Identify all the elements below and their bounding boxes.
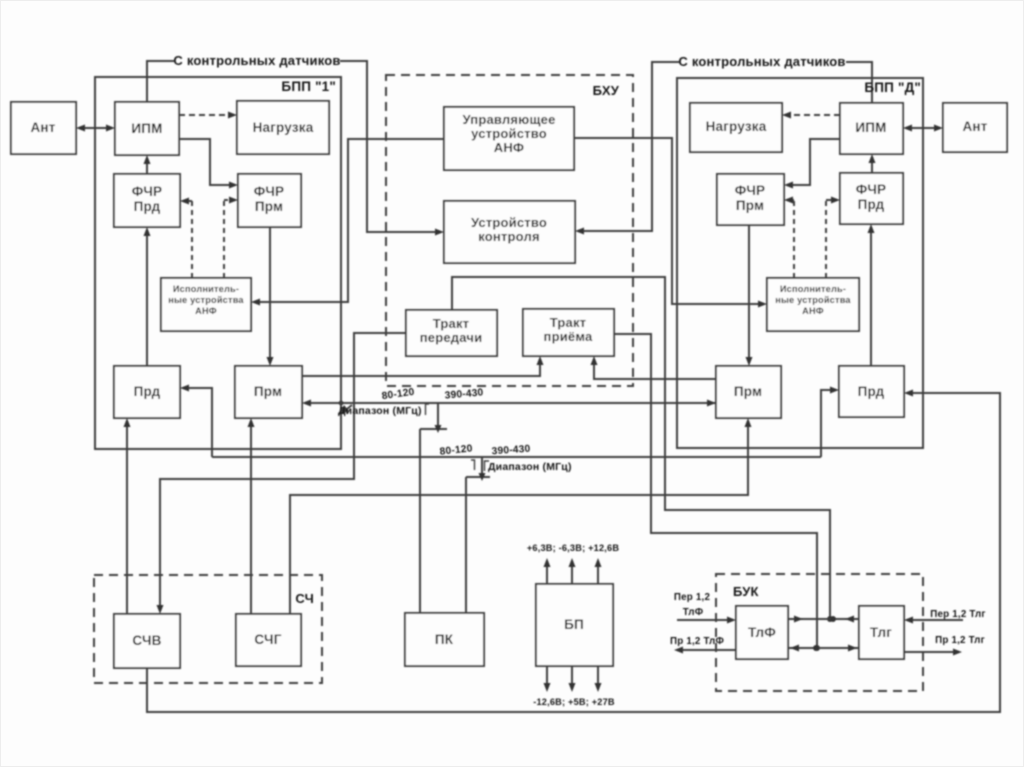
enclosure СЧ dashed — [94, 575, 322, 683]
svg-text:Прд: Прд — [858, 384, 885, 399]
box СЧГ — [236, 614, 301, 666]
svg-text:80-120: 80-120 — [381, 387, 415, 402]
svg-text:Прм: Прм — [254, 384, 282, 399]
svg-text:Прд: Прд — [134, 384, 161, 399]
svg-text:80-120: 80-120 — [439, 443, 473, 457]
net "С контрольных датчиков" left: line to ИПМ L top — [147, 61, 174, 102]
box Нагрузка left — [237, 101, 329, 154]
box Тракт приёма — [523, 309, 614, 356]
box Нагрузка right — [690, 103, 782, 152]
wire Тракт передачи - БУК junction — [452, 277, 833, 622]
wire ФЧР Прд L - ИПМ L — [144, 155, 151, 174]
svg-text:устройство: устройство — [471, 126, 547, 141]
svg-text:Диапазон (МГц): Диапазон (МГц) — [338, 405, 422, 417]
box Исполнительные устройства АНФ right — [767, 278, 859, 331]
svg-text:ТлФ: ТлФ — [683, 607, 704, 618]
svg-text:АНФ: АНФ — [195, 306, 217, 316]
wire Пр 1,2 ТлФ output — [674, 647, 736, 654]
svg-text:АНФ: АНФ — [494, 140, 524, 155]
wire Управляющее устройство АНФ - Исп.устройства АНФ L — [251, 139, 444, 306]
wire СЧГ - Прм L — [248, 418, 255, 614]
svg-text:ТлФ: ТлФ — [748, 625, 776, 640]
box Тлг — [859, 606, 904, 659]
svg-text:ные устройства: ные устройства — [168, 295, 244, 305]
svg-text:Пр 1,2 ТлФ: Пр 1,2 ТлФ — [670, 636, 724, 647]
net "С контрольных датчиков" left: line down to Устройство контроля — [340, 61, 444, 236]
svg-text:Нагрузка: Нагрузка — [253, 120, 314, 135]
box СЧВ — [114, 614, 180, 668]
svg-text:Прд: Прд — [858, 197, 885, 212]
wire ФЧР Прм L - Прм L — [267, 227, 274, 366]
box ФЧР Прд right — [840, 173, 903, 224]
svg-text:Пр 1,2 Тлг: Пр 1,2 Тлг — [935, 635, 985, 646]
svg-text:Ант: Ант — [30, 120, 55, 135]
svg-text:ПК: ПК — [435, 632, 454, 647]
svg-text:Тракт: Тракт — [433, 316, 470, 331]
box Прд left — [114, 366, 180, 418]
box Ант left — [11, 102, 76, 154]
box Ант right — [943, 103, 1007, 152]
wire Ант L - ИПМ L bidirectional — [76, 125, 115, 132]
svg-text:передачи: передачи — [420, 330, 483, 345]
bracket tick upper Диапазон — [426, 404, 430, 415]
box Прм right — [716, 366, 781, 418]
svg-text:Тлг: Тлг — [870, 625, 892, 640]
svg-text:СЧ: СЧ — [295, 591, 314, 606]
svg-text:Исполнитель-: Исполнитель- — [780, 284, 846, 294]
wire ИПМ L - Нагрузка L dashed — [179, 112, 237, 119]
box ФЧР Прм left — [238, 174, 301, 227]
net "С контрольных датчиков" right: line to ИПМ R top — [846, 62, 872, 103]
svg-text:390-430: 390-430 — [491, 444, 531, 458]
svg-text:приёма: приёма — [544, 329, 593, 344]
svg-text:ФЧР: ФЧР — [132, 184, 162, 199]
svg-text:БПП "Д": БПП "Д" — [864, 80, 921, 95]
svg-text:Устройство: Устройство — [471, 215, 547, 230]
svg-text:Исполнитель-: Исполнитель- — [173, 284, 239, 294]
wire Прд R - ФЧР Прд R — [868, 224, 875, 366]
wire СЧВ - Прд R long bottom route — [147, 390, 1000, 713]
svg-text:БУК: БУК — [733, 584, 759, 599]
svg-text:Тракт: Тракт — [550, 315, 587, 330]
svg-text:контроля: контроля — [478, 229, 540, 244]
svg-text:С контрольных датчиков: С контрольных датчиков — [678, 54, 845, 69]
svg-text:Нагрузка: Нагрузка — [706, 119, 767, 134]
wire СЧВ - Прд L — [124, 418, 131, 614]
svg-text:Прм: Прм — [255, 199, 283, 214]
wire Пер 1,2 Тлг input — [904, 617, 963, 624]
box Исполнительные устройства АНФ left — [161, 278, 251, 331]
svg-text:ФЧР: ФЧР — [254, 184, 284, 199]
wire Исп.устройства АНФ R - ФЧР Прм R dashed — [784, 197, 794, 279]
svg-text:СЧВ: СЧВ — [132, 633, 161, 648]
БП output arrows up — [544, 558, 602, 584]
box ТлФ — [736, 606, 788, 659]
net ПК - Прм bus (80-120/390-430) — [302, 400, 716, 614]
svg-text:ные устройства: ные устройства — [775, 295, 851, 305]
svg-text:+6,3В; -6,3В; +12,6В: +6,3В; -6,3В; +12,6В — [527, 543, 620, 553]
wire ИПМ R - Ант R bidirectional — [903, 125, 943, 132]
wire Прм L - Тракт приёма — [302, 356, 544, 376]
svg-text:390-430: 390-430 — [444, 387, 484, 401]
wire Исп.устройства АНФ L - ФЧР Прм L dashed — [224, 197, 238, 279]
box ПК — [405, 613, 484, 666]
svg-text:БПП "1": БПП "1" — [281, 79, 336, 94]
box БП — [536, 584, 613, 666]
box Управляющее устройство АНФ — [444, 107, 574, 170]
svg-text:Ант: Ант — [962, 119, 987, 134]
wire Тракт передачи - СЧВ — [157, 333, 407, 614]
svg-text:Диапазон (МГц): Диапазон (МГц) — [488, 461, 572, 473]
wire УАНФ - Исп.устройства АНФ R — [574, 138, 767, 308]
box Устройство контроля — [444, 201, 575, 263]
bracket tick lower 80-120 — [471, 460, 475, 470]
svg-text:Прм: Прм — [736, 198, 764, 213]
wire ИПМ R - ФЧР Прм R — [784, 139, 840, 189]
wire Исп.устройства АНФ R - ФЧР Прд R dashed — [826, 197, 840, 279]
wire ТлФ - Тлг upper with junction — [788, 616, 859, 623]
box ИПМ left — [115, 102, 179, 155]
wire Прм R - Тракт приёма — [591, 356, 717, 379]
box Прд right — [839, 366, 904, 417]
svg-text:Управляющее: Управляющее — [462, 112, 555, 127]
svg-text:-12,6В; +5В; +27В: -12,6В; +5В; +27В — [533, 697, 615, 707]
wire ИПМ L - ФЧР Прм L — [179, 139, 238, 189]
svg-text:ФЧР: ФЧР — [856, 182, 886, 197]
wire ТлФ - Тлг lower with junction — [788, 645, 859, 652]
svg-text:Прд: Прд — [134, 199, 161, 214]
svg-text:БХУ: БХУ — [593, 83, 620, 98]
svg-text:ИПМ: ИПМ — [855, 120, 886, 135]
net "С контрольных датчиков" right: line to контроля — [575, 62, 679, 235]
box ФЧР Прм right — [717, 174, 784, 225]
БП output arrows down — [544, 666, 602, 692]
wire Пер 1,2 ТлФ input — [677, 617, 736, 624]
enclosure БХУ dashed — [386, 75, 633, 386]
wire СЧГ - Прм R long — [290, 418, 752, 614]
wire Прд L - ФЧР Прд L — [144, 227, 151, 366]
svg-text:ИПМ: ИПМ — [131, 121, 162, 136]
svg-text:Пер 1,2: Пер 1,2 — [674, 592, 711, 603]
wire ФЧР Прм R - Прм R — [746, 225, 753, 366]
svg-text:С контрольных датчиков: С контрольных датчиков — [173, 53, 340, 68]
enclosure БПП "Д" — [677, 78, 923, 448]
wire ФЧР Прд R - ИПМ R — [869, 154, 876, 173]
svg-text:БП: БП — [564, 617, 584, 632]
svg-text:Прм: Прм — [734, 384, 762, 399]
box ИПМ right — [840, 103, 903, 154]
wire Исп.устройства АНФ L - ФЧР Прд L dashed — [180, 198, 192, 279]
enclosure БУК dashed — [716, 574, 923, 691]
wire ИПМ R - Нагрузка R dashed — [782, 112, 840, 119]
svg-text:СЧГ: СЧГ — [254, 632, 281, 647]
enclosure БПП "1" — [95, 77, 341, 449]
box Прм left — [235, 366, 302, 418]
net ПК - Прд bus — [180, 385, 839, 614]
box ФЧР Прд left — [114, 174, 180, 227]
bracket tick lower Диапазон — [485, 461, 490, 471]
svg-text:Пер 1,2 Тлг: Пер 1,2 Тлг — [930, 609, 985, 620]
box Тракт передачи — [406, 310, 497, 356]
wire Тракт приёма - БУК junction — [614, 334, 820, 651]
svg-text:АНФ: АНФ — [802, 306, 824, 316]
svg-text:ФЧР: ФЧР — [735, 183, 765, 198]
wire Пр 1,2 Тлг output — [904, 649, 962, 656]
